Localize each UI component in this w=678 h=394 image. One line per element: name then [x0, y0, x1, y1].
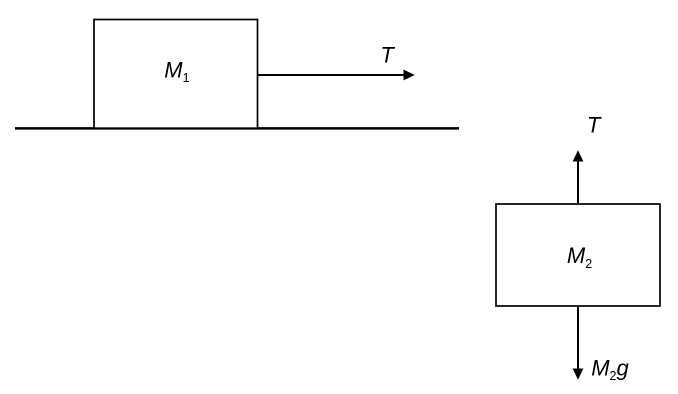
mass M1 box	[94, 20, 258, 129]
tension arrow T on M1	[258, 70, 415, 81]
svg-text:T: T	[380, 42, 395, 67]
mass M2 box	[496, 204, 660, 306]
weight arrow M2g	[573, 307, 584, 380]
svg-text:M2g: M2g	[591, 355, 629, 383]
ground surface line	[15, 127, 459, 130]
tension arrow T on M2	[573, 150, 584, 203]
svg-text:T: T	[587, 113, 602, 138]
